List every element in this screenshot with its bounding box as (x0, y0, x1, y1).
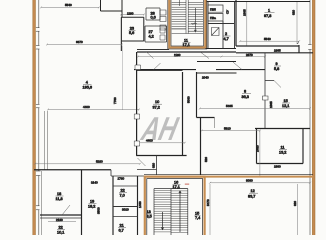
right wall window notch (308, 45, 311, 50)
box ПВа (208, 14, 223, 22)
stairwell bottom: treads left flight (154, 191, 171, 232)
room 1 bottom wall (236, 45, 299, 53)
stairwell bottom: flight borders (154, 189, 188, 235)
room 21 walls and label (113, 216, 138, 218)
svg-text:1865: 1865 (242, 9, 246, 16)
hatch box with diagonal (212, 28, 220, 36)
room 23 walls (121, 17, 144, 41)
wall mid vertical (200, 118, 202, 175)
svg-text:1180: 1180 (174, 53, 181, 57)
svg-text:6870: 6870 (76, 40, 83, 44)
stairwell top: left flight stub line (179, 0, 181, 6)
room 8 west wall (196, 72, 198, 118)
lower strip wall above orange line (144, 174, 313, 176)
dim 1190 room23 (120, 14, 145, 16)
svg-text:17,1: 17,1 (183, 43, 190, 47)
svg-text:4: 4 (86, 80, 88, 84)
room 15 west wall (264, 81, 266, 129)
dim 2190 room 22 (48, 221, 76, 223)
svg-text:4400: 4400 (146, 139, 153, 143)
svg-text:7760: 7760 (113, 97, 117, 104)
wall under rooms 2 and closets (206, 48, 237, 50)
stairwell bottom: orange box (145, 177, 205, 237)
closet boxes left of stairwell (160, 10, 166, 30)
svg-text:21: 21 (120, 224, 124, 228)
right side vertical dim line top (296, 2, 298, 44)
strip verticals (156, 156, 158, 175)
svg-text:1: 1 (268, 9, 270, 13)
svg-text:ПВа: ПВа (210, 16, 216, 20)
svg-text:5540: 5540 (65, 3, 72, 7)
dim 4400 under room4 (47, 109, 140, 111)
svg-text:0,6: 0,6 (151, 16, 156, 20)
stairwell top: dim tick (191, 22, 197, 25)
svg-text:1865: 1865 (269, 101, 273, 108)
orange corridor line bottom (144, 176, 313, 178)
svg-text:9: 9 (276, 62, 278, 66)
room 10 walls (136, 52, 138, 156)
svg-text:4,7: 4,7 (224, 37, 229, 41)
svg-text:97,8: 97,8 (264, 14, 271, 18)
room 18 walls (81, 170, 83, 235)
room 28 walls (146, 8, 160, 20)
svg-text:4400: 4400 (83, 105, 90, 109)
svg-text:19: 19 (90, 200, 94, 204)
stairwell top: treads (172, 2, 203, 31)
bottom-left block north wall (34, 169, 111, 171)
svg-text:1990: 1990 (274, 165, 281, 169)
svg-text:18: 18 (57, 192, 61, 196)
left wall window notch 3 (36, 104, 40, 108)
dim 8090 above room 12 (209, 182, 311, 184)
room 9 west wall (264, 53, 266, 81)
svg-text:1480: 1480 (138, 201, 142, 208)
vertical dim line mid (259, 131, 261, 176)
svg-text:12,1: 12,1 (282, 104, 289, 108)
svg-text:3500: 3500 (97, 207, 101, 214)
svg-text:22: 22 (59, 226, 63, 230)
svg-text:13: 13 (147, 210, 151, 214)
corridor door swing below stairwell (201, 53, 209, 59)
room 15 door swing (274, 81, 281, 88)
room 1 bottom dim 5540 (239, 40, 300, 42)
svg-text:15: 15 (195, 212, 199, 216)
room 8 north wall upper (197, 61, 236, 63)
room 9/15 divider wall (265, 80, 274, 82)
svg-text:10: 10 (155, 100, 159, 104)
svg-text:8,5: 8,5 (147, 215, 152, 219)
corridor north wall (137, 51, 236, 53)
svg-text:37,2: 37,2 (153, 106, 160, 110)
room 8 south wall (197, 117, 215, 119)
svg-text:12: 12 (251, 189, 255, 193)
dim 6870 room4 (46, 44, 123, 46)
room 4 dim extension line (122, 46, 124, 111)
left outer wall edge lines (33, 0, 36, 235)
stairwell bottom: treads right flight (171, 189, 188, 233)
dim 5465 mid (199, 108, 311, 110)
svg-text:18,2: 18,2 (88, 204, 95, 208)
svg-text:8: 8 (244, 90, 246, 94)
room 18 door swing (62, 205, 70, 215)
svg-text:3010: 3010 (122, 208, 129, 212)
svg-text:6,7: 6,7 (119, 228, 124, 232)
room 4 east wall upper (121, 17, 123, 51)
stairwell bottom: down arrow left flight (161, 212, 163, 230)
wall below room15 / room11 north (255, 128, 310, 130)
left wall window notch 1 (36, 28, 40, 32)
svg-text:5540: 5540 (264, 37, 271, 41)
room 27 walls (145, 26, 167, 42)
room 1 interior vertical dim (246, 2, 248, 46)
svg-text:27: 27 (149, 30, 153, 34)
svg-text:1865: 1865 (274, 49, 281, 53)
svg-text:СУ: СУ (226, 10, 230, 14)
room 22b walls and label (113, 206, 138, 208)
left wall window notch 2 (36, 46, 40, 50)
corridor south wall (134, 69, 265, 71)
svg-text:2: 2 (225, 32, 227, 36)
left wall inner face line lower (41, 171, 43, 235)
svg-text:ПВ5: ПВ5 (210, 8, 216, 12)
svg-text:11: 11 (281, 146, 285, 150)
stairwell bottom: black outline (147, 179, 203, 237)
svg-text:22: 22 (121, 189, 125, 193)
svg-text:5465: 5465 (226, 104, 233, 108)
svg-text:7,0: 7,0 (120, 193, 125, 197)
room 10 wall piers (134, 65, 140, 146)
svg-text:5080: 5080 (187, 96, 191, 103)
stairwell bottom: up arrow right flight (179, 191, 181, 232)
svg-text:13,2: 13,2 (279, 150, 286, 154)
svg-text:920: 920 (292, 10, 296, 15)
room 27 fixtures (160, 28, 165, 40)
room 1 west wall (235, 0, 237, 46)
stairwell top: flight direction line with down arrow (194, 8, 196, 32)
small room top dim 1780 (113, 185, 138, 187)
svg-text:2190: 2190 (56, 218, 63, 222)
svg-text:83,7: 83,7 (248, 194, 255, 198)
svg-text:195,6: 195,6 (83, 86, 93, 90)
room 12 right vertical dim (297, 184, 299, 235)
dim 5280 bottom-left (34, 163, 141, 165)
svg-text:5,8: 5,8 (274, 67, 279, 71)
svg-text:920: 920 (152, 163, 156, 168)
right outer wall orange highlight (312, 0, 315, 235)
svg-text:11,8: 11,8 (56, 197, 63, 201)
svg-text:2040: 2040 (202, 76, 209, 80)
svg-text:5280: 5280 (96, 160, 103, 164)
svg-text:7,4: 7,4 (195, 216, 200, 220)
right outer wall edge lines (312, 0, 315, 235)
svg-text:1480: 1480 (256, 145, 260, 152)
svg-text:15: 15 (284, 99, 288, 103)
svg-text:5470: 5470 (206, 199, 210, 206)
corridor dim line (138, 56, 265, 58)
room 11 walls (257, 129, 304, 164)
left wall window notch 4 (36, 171, 41, 176)
stairwell top: center gap lines (186, 0, 188, 34)
dim 5540 top-left (40, 6, 100, 8)
svg-text:17,1: 17,1 (173, 185, 180, 189)
small rooms column walls (112, 176, 114, 235)
room 15 wall pier (263, 96, 269, 100)
rooms right of top stairwell: box ПВ5 (208, 5, 223, 12)
svg-text:5,6: 5,6 (129, 31, 134, 35)
dim 5910 (201, 130, 261, 132)
room 8 notch wall (197, 72, 237, 74)
left wall window notch 5 (36, 206, 40, 210)
svg-text:3140: 3140 (91, 181, 98, 185)
room 23 left wall lower part (120, 41, 122, 51)
svg-text:4,2: 4,2 (149, 35, 154, 39)
svg-text:1780: 1780 (118, 177, 125, 181)
stairwell top: landing lines (172, 29, 203, 34)
stairwell top: orange box (169, 0, 205, 48)
svg-text:10,1: 10,1 (57, 230, 64, 234)
svg-text:16: 16 (174, 180, 178, 184)
right wall inner face line (309, 0, 311, 235)
room 12 vertical dim line (209, 184, 211, 235)
top wall right part (206, 1, 311, 3)
svg-text:2670: 2670 (246, 53, 253, 57)
svg-text:920: 920 (293, 201, 297, 206)
room 2 walls (208, 2, 235, 49)
left wall inner face line (38, 0, 40, 235)
svg-text:11: 11 (184, 39, 188, 43)
svg-text:36,3: 36,3 (242, 95, 249, 99)
svg-text:8090: 8090 (246, 179, 253, 183)
room 22 wall (40, 217, 82, 219)
svg-text:520: 520 (204, 157, 208, 162)
left wall inner double line lower (45, 111, 48, 170)
left outer wall orange highlight (33, 0, 36, 235)
svg-text:23: 23 (130, 26, 134, 30)
stairwell top: black outline (168, 0, 207, 49)
svg-text:5910: 5910 (224, 127, 231, 131)
top wall of building (101, 0, 123, 17)
red section tick (185, 183, 189, 185)
corridor door swings (147, 52, 161, 70)
room 10 dim 4400 (136, 142, 186, 144)
svg-text:1190: 1190 (127, 11, 134, 15)
